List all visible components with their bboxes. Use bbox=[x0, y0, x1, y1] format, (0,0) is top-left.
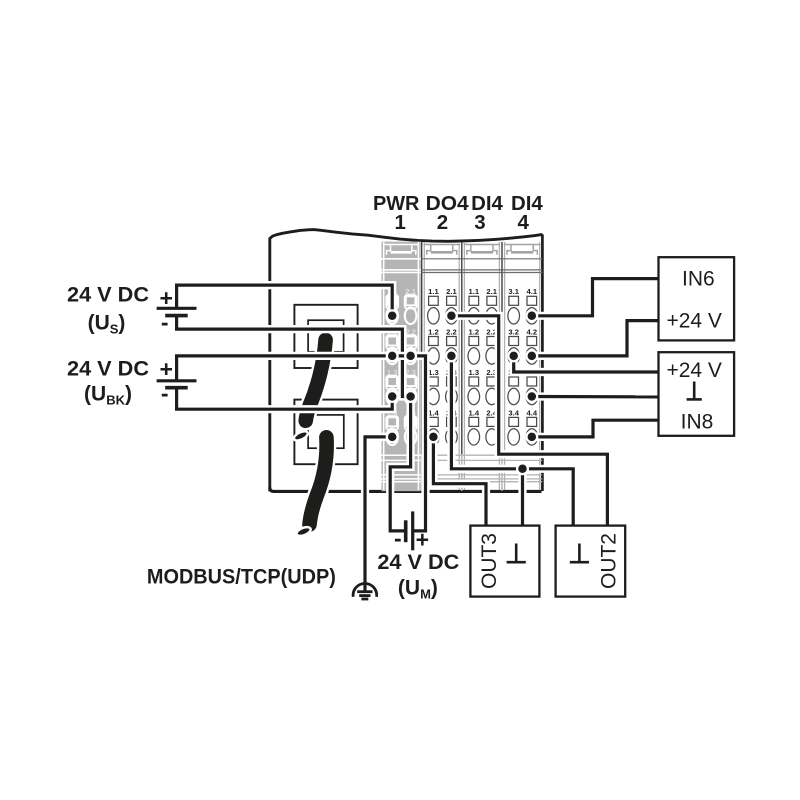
RJ45 jack 2 inner bbox=[308, 415, 344, 448]
RJ45 jack 1 inner bbox=[308, 320, 344, 352]
svg-text:+: + bbox=[159, 285, 172, 311]
node DO4 1.4 bbox=[427, 430, 440, 443]
battery US plates bbox=[157, 308, 197, 315]
module 2 terminal 2.2 bbox=[446, 327, 458, 364]
svg-text:2.1: 2.1 bbox=[446, 287, 457, 296]
module 2 terminal 2.3 bbox=[446, 368, 458, 405]
module 3 terminal 2.4 bbox=[486, 408, 498, 445]
svg-text:3.4: 3.4 bbox=[508, 408, 519, 417]
PWR terminal 1.1 bbox=[386, 287, 398, 324]
PWR terminal 1.4 bbox=[386, 408, 398, 445]
svg-text:(UM): (UM) bbox=[398, 577, 438, 602]
svg-text:3: 3 bbox=[474, 211, 485, 234]
node PWR 1.3 bbox=[386, 390, 399, 403]
module 2 terminal 1.1 bbox=[428, 287, 440, 324]
module 4 terminal 4.1 bbox=[526, 287, 538, 324]
svg-text:1.3: 1.3 bbox=[428, 368, 439, 377]
svg-text:IN8: IN8 bbox=[681, 410, 714, 433]
wire DI4 4.1 to IN6 bbox=[532, 279, 659, 316]
PWR module column (gray) bbox=[382, 242, 421, 492]
wire US+ to PWR 1.1 bbox=[177, 285, 393, 316]
wire PWR 2.3 to UM- bbox=[390, 397, 410, 531]
svg-text:1.4: 1.4 bbox=[428, 408, 439, 417]
module 4 terminal 3.3 bbox=[508, 368, 520, 405]
module 2 terminal 1.2 bbox=[428, 327, 440, 364]
gnd symbol in OUT2 box bbox=[570, 544, 589, 563]
svg-text:1: 1 bbox=[394, 211, 405, 234]
svg-text:4.1: 4.1 bbox=[527, 287, 538, 296]
svg-text:+24 V: +24 V bbox=[666, 309, 721, 332]
node DI4 4.4 bbox=[525, 430, 538, 443]
wire US- to PWR 2.3 bbox=[177, 316, 411, 397]
svg-text:1.3: 1.3 bbox=[387, 368, 398, 377]
svg-text:2.1: 2.1 bbox=[405, 287, 416, 296]
svg-text:MODBUS/TCP(UDP): MODBUS/TCP(UDP) bbox=[147, 564, 336, 588]
module 2 terminal 2.4 bbox=[446, 408, 458, 445]
I/O module column 2 frame bbox=[422, 242, 462, 491]
node DI4 4.2 bbox=[525, 349, 538, 362]
module 2 terminal 1.3 bbox=[428, 368, 440, 405]
PWR module internal details bbox=[382, 242, 421, 490]
ethernet cable plugged in jack 1 bbox=[293, 340, 326, 443]
RJ45 jack 1 outer bbox=[294, 305, 357, 368]
node DI4 3.2 bbox=[507, 349, 520, 362]
gnd symbol in IN8 box bbox=[687, 382, 702, 400]
protective earth ground symbol bbox=[353, 583, 377, 599]
svg-text:3.2: 3.2 bbox=[508, 327, 519, 336]
svg-text:OUT2: OUT2 bbox=[598, 533, 621, 589]
device right edge (continuation) bbox=[541, 234, 544, 491]
svg-text:+24 V: +24 V bbox=[666, 359, 721, 382]
svg-text:1.1: 1.1 bbox=[428, 287, 439, 296]
module 3 terminal 2.3 bbox=[486, 368, 498, 405]
module 4 terminal 4.4 bbox=[526, 408, 538, 445]
svg-text:2.1: 2.1 bbox=[486, 287, 497, 296]
svg-text:-: - bbox=[161, 380, 169, 406]
node PWR 1.2 bbox=[386, 349, 399, 362]
module 3 terminal 1.3 bbox=[468, 368, 480, 405]
module 3 terminal 1.2 bbox=[468, 327, 480, 364]
svg-text:2.2: 2.2 bbox=[446, 327, 457, 336]
actuator box OUT2 bbox=[556, 526, 626, 597]
wire DI4 4.3 to IN8 gnd bbox=[532, 392, 659, 401]
ethernet cable plugged in jack 2 bbox=[295, 437, 326, 537]
svg-text:1.3: 1.3 bbox=[469, 368, 480, 377]
svg-text:24 V DC: 24 V DC bbox=[67, 355, 149, 380]
svg-text:4: 4 bbox=[517, 211, 529, 234]
sensor box +24V / gnd / IN8 bbox=[659, 352, 735, 436]
svg-text:4.2: 4.2 bbox=[527, 327, 538, 336]
svg-text:4.4: 4.4 bbox=[527, 408, 538, 417]
svg-text:1.4: 1.4 bbox=[469, 408, 480, 417]
gnd symbol in OUT3 box bbox=[507, 544, 526, 563]
I/O module column 3 frame bbox=[462, 242, 502, 491]
svg-text:+: + bbox=[159, 356, 172, 382]
sensor box IN6 / +24V bbox=[659, 257, 735, 340]
PWR terminal 1.2 bbox=[386, 327, 398, 364]
node PWR 2.3 bbox=[404, 390, 417, 403]
svg-text:IN6: IN6 bbox=[682, 268, 715, 291]
node PWR 1.1 bbox=[386, 309, 399, 322]
svg-text:2.2: 2.2 bbox=[405, 327, 416, 336]
module 3 terminal 2.1 bbox=[486, 287, 498, 324]
module 3 terminal 2.2 bbox=[486, 327, 498, 364]
svg-text:(US): (US) bbox=[88, 311, 126, 336]
junction OUT gnd bbox=[516, 462, 529, 475]
module 3 terminal 1.1 bbox=[468, 287, 480, 324]
svg-text:2: 2 bbox=[437, 211, 448, 234]
svg-text:OUT3: OUT3 bbox=[478, 533, 501, 589]
svg-text:1.1: 1.1 bbox=[469, 287, 480, 296]
device body outline (bus coupler housing) bbox=[270, 230, 543, 492]
node PWR 1.4 bbox=[386, 430, 399, 443]
module 4 terminal 3.4 bbox=[508, 408, 520, 445]
actuator box OUT3 bbox=[470, 526, 539, 597]
PWR terminal 2.1 bbox=[405, 287, 417, 324]
module 4 terminal 4.3 bbox=[526, 368, 538, 405]
module 4 terminal 3.1 bbox=[508, 287, 520, 324]
battery UBK plates bbox=[157, 381, 197, 388]
module 4 terminal 3.2 bbox=[508, 327, 520, 364]
module 3 terminal 1.4 bbox=[468, 408, 480, 445]
wire junction to OUT3 gnd bbox=[518, 469, 526, 526]
PWR terminal 1.3 bbox=[386, 368, 398, 405]
PWR terminal 2.3 bbox=[405, 368, 417, 405]
module 2 terminal 2.1 bbox=[446, 287, 458, 324]
wire PWR 1.4 to ground bbox=[365, 437, 392, 592]
svg-text:2.3: 2.3 bbox=[405, 368, 416, 377]
svg-text:1.2: 1.2 bbox=[469, 327, 480, 336]
svg-text:24 V DC: 24 V DC bbox=[377, 549, 459, 574]
node DO4 2.2 bbox=[445, 349, 458, 362]
wire DO4 1.4 to OUT3 bbox=[433, 437, 486, 526]
module 2 terminal 1.4 bbox=[428, 408, 440, 445]
I/O module column 4 frame bbox=[502, 242, 542, 491]
PWR terminal 2.2 bbox=[405, 327, 417, 364]
wire DI4 3.2 to IN8 +24V bbox=[514, 356, 659, 372]
svg-text:24 V DC: 24 V DC bbox=[67, 281, 149, 306]
svg-text:-: - bbox=[161, 309, 169, 335]
module 4 terminal 4.2 bbox=[526, 327, 538, 364]
node DI4 4.1 bbox=[525, 309, 538, 322]
battery UM plates bbox=[406, 511, 413, 550]
wire UBK+ / PWR 1.2 / PWR 2.2 / UM+ bbox=[177, 356, 426, 531]
wire DO4 2.2 to OUT2 gnd bbox=[451, 356, 573, 526]
svg-text:1.2: 1.2 bbox=[428, 327, 439, 336]
svg-text:-: - bbox=[394, 525, 402, 551]
node PWR 2.2 bbox=[404, 349, 417, 362]
wire UBK- to PWR 1.3 bbox=[177, 388, 393, 410]
wire DO4 2.1 to OUT2 bbox=[451, 316, 607, 526]
PWR terminal 2.4 bbox=[405, 408, 417, 445]
svg-text:3.1: 3.1 bbox=[508, 287, 519, 296]
RJ45 jack 2 outer bbox=[294, 400, 357, 465]
node DO4 2.1 bbox=[445, 309, 458, 322]
node DI4 4.3 bbox=[525, 390, 538, 403]
wire DI4 4.4 to IN8 bbox=[532, 420, 659, 437]
wire DI4 4.2 to IN6 +24V bbox=[532, 321, 659, 356]
